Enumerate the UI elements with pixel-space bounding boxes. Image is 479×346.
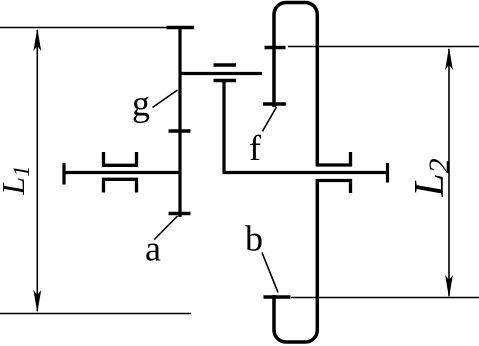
reference line top-right: [288, 46, 479, 48]
lower-left shaft end cap: [62, 163, 65, 185]
reference line top-left: [0, 27, 180, 29]
belt loop right upper vertical: [316, 14, 320, 167]
reference line bottom-left: [0, 313, 191, 315]
belt loop top arc: [274, 3, 317, 15]
pointer line g: [153, 90, 178, 108]
dimension line L1: [33, 28, 41, 313]
belt loop right lower vertical: [316, 179, 320, 331]
belt loop left upper vertical: [272, 14, 276, 108]
shaft I top cap: [167, 26, 195, 30]
reference line bottom-right: [291, 297, 479, 299]
clutch upper plate: [214, 63, 237, 67]
pulley tick at top of loop: [265, 46, 286, 50]
svg-text:g: g: [132, 84, 150, 124]
dimension line L2: [445, 47, 453, 298]
pointer line f: [262, 107, 276, 131]
belt loop left lower vertical: [272, 295, 276, 331]
lower-left shaft: [63, 171, 180, 174]
label L2: [407, 158, 456, 197]
gear g tick on shaft I: [169, 129, 191, 133]
sliding clutch lower bracket (right): [317, 181, 350, 194]
label L1: [0, 165, 34, 195]
lower-right shaft end cap: [386, 163, 389, 183]
sliding clutch upper bracket (right): [317, 152, 350, 165]
pointer line a: [154, 216, 177, 240]
sliding clutch upper bracket (left): [104, 152, 137, 165]
svg-text:b: b: [245, 219, 263, 259]
gear a tick (shaft I bottom cap): [169, 212, 191, 216]
clutch stem and lower-right shaft: [224, 81, 388, 173]
shaft I (left vertical shaft): [178, 27, 181, 218]
pointer line b: [262, 253, 278, 293]
svg-text:f: f: [249, 128, 261, 168]
sliding clutch lower bracket (left): [104, 179, 137, 192]
svg-text:a: a: [145, 229, 161, 269]
upper horizontal shaft: [180, 72, 262, 75]
gear b tick: [264, 295, 291, 299]
belt loop bottom arc: [274, 330, 317, 342]
gear f tick: [263, 102, 286, 106]
clutch lower plate: [214, 79, 237, 83]
